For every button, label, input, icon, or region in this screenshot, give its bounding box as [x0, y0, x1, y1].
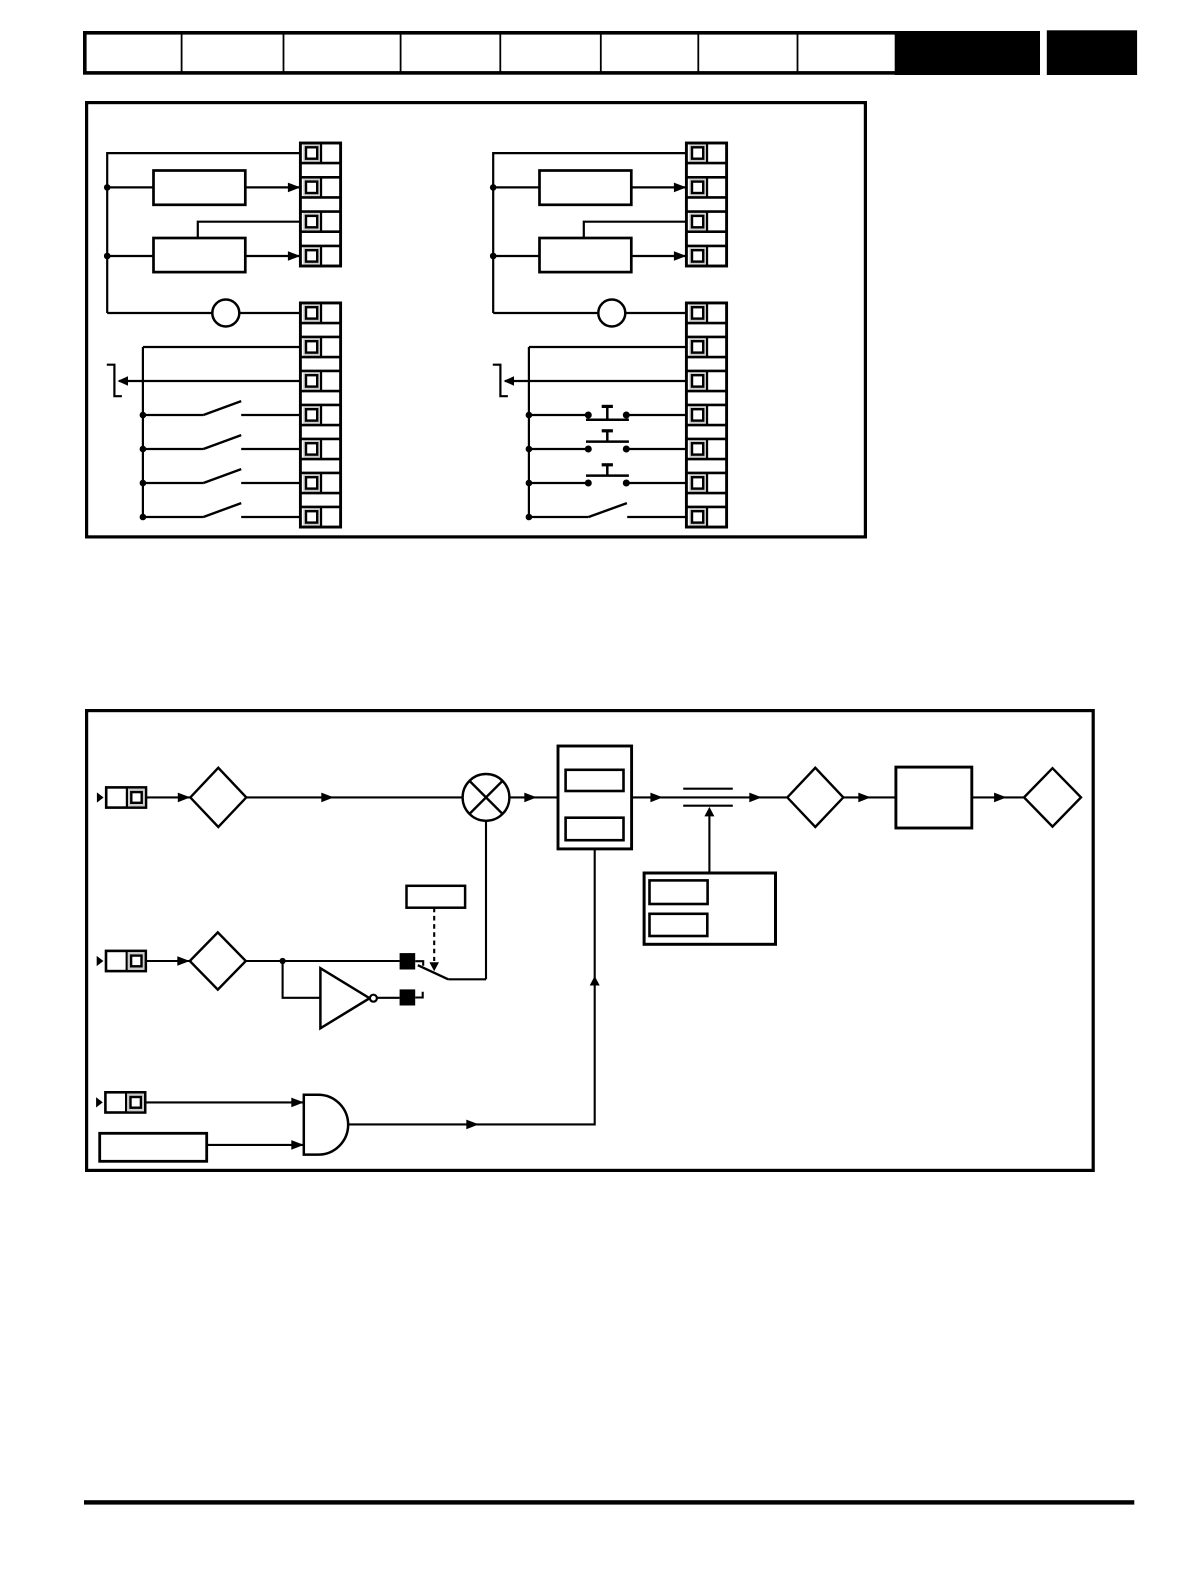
scale block	[558, 746, 632, 849]
wire diamond1 to multiplier	[246, 796, 462, 798]
wire and gate output	[348, 849, 595, 1125]
arrow dashed control	[429, 962, 439, 971]
arrow up to scale block	[590, 976, 600, 986]
diamond parameter 3	[1024, 768, 1081, 826]
input terminal symbol 2	[97, 951, 146, 971]
wire scale block to ramp	[632, 796, 788, 798]
junction B bus row 3	[526, 480, 533, 487]
terminal strip B digital (7-way)	[686, 303, 726, 527]
header menu tab table	[85, 33, 1038, 73]
wire A bus to pot1	[107, 186, 153, 188]
ramp limit lower bar	[683, 805, 733, 807]
inverter gate	[320, 968, 369, 1028]
push button bridge B 1	[586, 418, 629, 421]
wire B supply bus	[492, 152, 494, 313]
bracket symbol A output	[107, 365, 122, 397]
header tab divider 3	[400, 33, 402, 74]
potentiometer box A upper	[154, 171, 246, 205]
scale block parameter slot upper	[566, 770, 624, 791]
select parameter box	[407, 886, 466, 908]
push button stem B 3	[606, 465, 609, 476]
arrow mid wire 2	[524, 793, 537, 803]
wire B button 3 left	[529, 482, 588, 484]
wire input3 to and gate	[146, 1101, 304, 1103]
arrow A into T2	[288, 183, 301, 193]
wire A T7 output	[119, 380, 300, 382]
wire B digital common bus	[528, 347, 530, 517]
potentiometer box A lower	[154, 238, 246, 272]
wire A +supply to terminal T1	[107, 152, 300, 154]
enable word box	[100, 1133, 207, 1161]
arrow mid output wire	[466, 1120, 479, 1130]
input terminal symbol 3	[96, 1092, 145, 1112]
diamond parameter 4	[190, 932, 246, 989]
switch blade A 3	[203, 469, 241, 483]
switch blade A 2	[203, 435, 241, 449]
terminal strip A analog (4-way)	[300, 143, 340, 266]
wire diamond2 to drive block	[843, 796, 896, 798]
wire B button 3 right	[626, 482, 686, 484]
junction A bus row 2	[140, 446, 147, 453]
wiring diagram frame	[87, 103, 866, 537]
arrow into diamond4	[177, 956, 190, 966]
junction B bus row 4	[526, 514, 533, 521]
meter circle B	[598, 300, 625, 327]
junction A bus row 1	[140, 412, 147, 419]
wire A switch 2 left	[143, 448, 204, 450]
wire A supply bus	[106, 152, 108, 313]
arrow into mode diamond	[178, 793, 191, 803]
arrow mid wire 3	[650, 793, 663, 803]
switch blade B	[589, 503, 627, 517]
multiplier cross	[470, 781, 503, 814]
junction A bus-pot1	[104, 184, 111, 191]
arrow A into T4	[288, 251, 301, 261]
wire A switch 4 left	[143, 516, 204, 518]
arrow A output to left	[118, 376, 129, 386]
junction A bus row 4	[140, 514, 147, 521]
push button bridge B 3	[586, 474, 629, 477]
diamond parameter 2	[787, 768, 843, 827]
potentiometer box B lower	[540, 238, 632, 272]
contact dots button B 3	[585, 480, 592, 487]
wire A switch 4 right	[241, 516, 300, 518]
arrow mid wire 6	[994, 793, 1007, 803]
and gate	[304, 1095, 348, 1155]
wire B switch right	[627, 516, 686, 518]
drive block	[896, 767, 972, 828]
arrow mid wire 1	[321, 793, 334, 803]
meter circle A	[212, 300, 239, 327]
scale block parameter slot lower	[566, 818, 624, 841]
wire B pot2 tap to T3	[584, 222, 687, 238]
select switch blade	[418, 965, 448, 979]
switch blade A 4	[203, 503, 241, 517]
dashed control line	[433, 908, 435, 961]
arrow up into ramp	[704, 807, 714, 817]
header tab divider 5	[600, 33, 602, 74]
wire ramp parameter feed	[708, 814, 710, 874]
logic diagram frame	[87, 711, 1094, 1171]
wire branch to inverter	[283, 961, 321, 998]
wire A switch 1 left	[143, 414, 204, 416]
wire input2 to diamond4	[146, 960, 190, 962]
push button cap B 2	[602, 429, 613, 432]
multiplier circle	[463, 774, 510, 821]
wire A pot2 wiper to T4	[245, 255, 300, 257]
wire A switch 3 left	[143, 482, 204, 484]
wire select switch to multiplier branch	[448, 978, 486, 980]
arrow into and gate lower input	[291, 1140, 304, 1150]
wire A meter to T5	[239, 312, 300, 314]
switch blade A 1	[203, 401, 241, 415]
header tab divider 1	[181, 33, 183, 74]
arrow B into T4	[674, 251, 687, 261]
arrow into and gate top input	[291, 1098, 304, 1108]
wire A pot2 tap to T3	[198, 222, 301, 238]
select contact upper (black)	[400, 953, 416, 969]
push button cap B 1	[602, 405, 613, 408]
contact dots button B 2	[585, 446, 592, 453]
junction B bus-pot2	[490, 253, 497, 260]
junction A bus-pot2	[104, 253, 111, 260]
inverter bubble	[370, 995, 377, 1002]
wire drive block to diamond3	[972, 796, 1024, 798]
wire B meter to T5	[625, 312, 686, 314]
junction B bus-pot1	[490, 184, 497, 191]
footer rule	[84, 1500, 1134, 1504]
wire B pot1 wiper to T2	[631, 186, 686, 188]
junction B bus row 1	[526, 412, 533, 419]
arrow mid wire 5	[858, 793, 871, 803]
contact dots button B 1	[585, 412, 592, 419]
wire A switch 1 right	[241, 414, 300, 416]
wire A T6 to common bus	[143, 346, 301, 348]
ramp parameter slot lower	[650, 914, 708, 936]
terminal strip B analog (4-way)	[686, 143, 726, 266]
wire B button 2 left	[529, 448, 588, 450]
bracket symbol B output	[493, 365, 508, 397]
wire B T6 to common bus	[529, 346, 687, 348]
wire input1 to mode diamond	[146, 796, 190, 798]
input terminal symbol 1	[97, 787, 146, 807]
arrow B output to left	[504, 376, 515, 386]
junction invert branch	[280, 958, 286, 964]
wire diamond4 to select contact	[246, 960, 400, 962]
wire B button 1 right	[626, 414, 686, 416]
junction B bus row 2	[526, 446, 533, 453]
select contact lower (black)	[400, 989, 416, 1005]
wire A switch 3 right	[241, 482, 300, 484]
wire B T7 output	[505, 380, 686, 382]
ramp parameter box	[644, 873, 775, 944]
push button stem B 2	[606, 431, 609, 442]
push button cap B 3	[602, 463, 613, 466]
wire B bus to pot1	[493, 186, 539, 188]
arrow B into T2	[674, 183, 687, 193]
terminal strip A digital (7-way)	[300, 303, 340, 527]
header active tab (black)	[895, 31, 1040, 75]
ramp limit upper bar	[683, 788, 733, 790]
wire A pot1 wiper to T2	[245, 186, 300, 188]
wire A switch 2 right	[241, 448, 300, 450]
wire B pot2 wiper to T4	[631, 255, 686, 257]
wire B bus to pot2	[493, 255, 539, 257]
wire inverter to lower contact	[377, 997, 400, 999]
ramp parameter slot upper	[650, 880, 708, 904]
select contact upper stub	[415, 961, 423, 966]
potentiometer box B upper	[540, 171, 632, 205]
select contact lower stub	[415, 992, 423, 998]
header tab divider 2	[283, 33, 285, 74]
push button stem B 1	[606, 406, 609, 419]
wire multiplier to scale block	[509, 796, 558, 798]
push button bridge B 2	[586, 440, 629, 443]
wire B bus to meter	[493, 312, 598, 314]
wire enable box to and gate	[207, 1144, 304, 1146]
wire A bus to meter	[107, 312, 212, 314]
header tab divider 6	[697, 33, 699, 74]
header corner index block	[1047, 30, 1137, 75]
wire A digital common bus	[142, 347, 144, 517]
wire B +supply to terminal T1	[493, 152, 686, 154]
wire multiplier down to select switch	[485, 821, 487, 980]
wire A bus to pot2	[107, 255, 153, 257]
junction A bus row 3	[140, 480, 147, 487]
wire B button 1 left	[529, 414, 588, 416]
arrow mid wire 4	[749, 793, 762, 803]
wire B switch left	[529, 516, 589, 518]
header tab divider 7	[797, 33, 799, 74]
header tab divider 4	[499, 33, 501, 74]
diamond parameter 1	[190, 768, 246, 827]
wire B button 2 right	[626, 448, 686, 450]
